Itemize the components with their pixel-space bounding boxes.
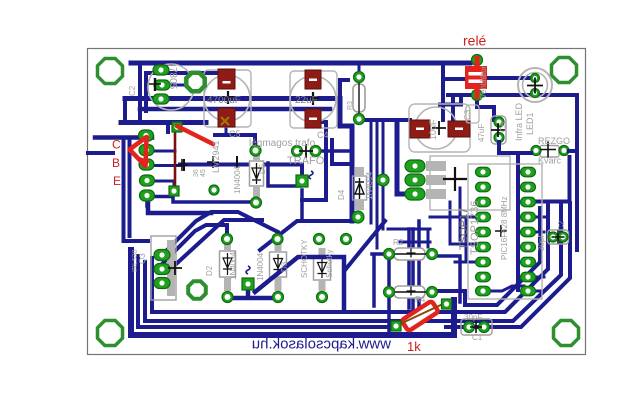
resistor R2 pad right xyxy=(427,249,438,260)
wire top bus xyxy=(131,61,470,66)
squiggle xyxy=(246,266,250,274)
PIC pin R9 xyxy=(521,286,536,296)
wire sq pad west xyxy=(302,198,326,202)
svg-text:1N4004: 1N4004 xyxy=(229,251,238,280)
resistor R5 body xyxy=(353,84,365,112)
mounting hole bottom-left xyxy=(98,321,123,346)
regulator IC2 7805 body xyxy=(148,64,194,110)
pad sq top xyxy=(172,122,182,132)
resistor 1k body xyxy=(401,301,438,332)
octagon pad bottom xyxy=(188,281,206,299)
wire PIC stub a xyxy=(430,216,477,219)
wire pic top v xyxy=(516,153,520,290)
wire PIC right stub d xyxy=(534,290,544,293)
svg-text:D4: D4 xyxy=(337,189,346,200)
wire left corner big xyxy=(121,120,206,125)
wire pad stub mid xyxy=(382,186,385,221)
diode D5 pad bottom xyxy=(273,292,284,303)
wire relay feed xyxy=(441,63,445,120)
wire pad4 stub xyxy=(153,181,174,186)
relay stubs xyxy=(475,56,480,99)
wire 7805 pin2 stub xyxy=(168,84,188,87)
wire trafo right xyxy=(268,151,348,186)
wire diag Q3 up xyxy=(175,220,262,265)
PIC pin L4 xyxy=(476,212,491,222)
wire D6 top stub xyxy=(215,135,255,146)
svg-text:30pF: 30pF xyxy=(464,313,482,322)
trafo pad right xyxy=(310,146,321,157)
wire R2 left xyxy=(372,254,389,306)
TSOP1736 body xyxy=(430,156,510,210)
PIC pin L8 xyxy=(476,272,491,282)
wire pic row to right xyxy=(534,157,570,202)
wire 7805 pin1 stub xyxy=(160,63,163,70)
svg-text:E: E xyxy=(113,174,121,188)
wire left vertical pair a xyxy=(138,63,142,121)
wire PIC bottom jog xyxy=(489,286,524,291)
TSOP pad2 xyxy=(405,174,425,186)
wire left vertical c xyxy=(123,99,127,122)
wire PIC right stub b xyxy=(534,231,544,234)
diode D2 pad bottom xyxy=(222,292,233,303)
diode D2 pad top xyxy=(222,234,233,245)
wire PIC right stub c xyxy=(534,276,544,279)
wire bundle P2 xyxy=(145,202,561,322)
capacitor C5 body xyxy=(204,70,251,127)
wire C4 down a xyxy=(313,122,326,197)
wire left vertical pair b xyxy=(144,73,148,111)
diode D4 body xyxy=(353,176,367,200)
wire sqpad down xyxy=(300,190,304,221)
wire diag N1 xyxy=(162,212,278,255)
svg-text:TRAFO: TRAFO xyxy=(287,155,325,167)
resistor R5 pad bottom xyxy=(354,114,365,125)
diode D6 symbol xyxy=(252,163,261,184)
diode D6 bottom pad xyxy=(251,197,262,208)
relay pad bottom xyxy=(472,90,483,101)
PIC pin L2 xyxy=(476,182,491,192)
wire diag N2 xyxy=(162,225,227,264)
svg-text:PIC16F628 8MHz: PIC16F628 8MHz xyxy=(500,196,509,260)
octagon pad near 7805 xyxy=(186,73,204,91)
squiggle2 xyxy=(309,171,313,179)
wire stub v168 xyxy=(166,123,170,132)
PIC pin R2 xyxy=(521,182,536,192)
diode D3 pad top xyxy=(314,234,325,245)
mounting hole top-right xyxy=(552,58,577,83)
wire bundle P1 xyxy=(152,203,548,312)
resistor R4 body xyxy=(394,286,425,298)
wire bottom thick xyxy=(131,250,454,335)
svg-text:C5: C5 xyxy=(229,129,241,139)
capacitor C7 pad right xyxy=(448,121,470,137)
capacitor C4 body xyxy=(290,71,337,128)
transistor T1 red symbol xyxy=(130,137,147,166)
wire C5 to D6 xyxy=(225,127,228,135)
diode D6 top pad xyxy=(250,145,261,156)
capacitor C2 pad right xyxy=(558,232,568,242)
wire PIC stub b xyxy=(450,202,477,244)
svg-text:SCHOTKY: SCHOTKY xyxy=(300,239,309,278)
wire R2 upper net xyxy=(388,229,430,247)
svg-text:relé: relé xyxy=(463,33,487,49)
mounting hole bottom-right xyxy=(554,321,579,346)
PIC pin L7 xyxy=(476,257,491,267)
svg-text:4700uF: 4700uF xyxy=(207,95,241,106)
pad ring extra xyxy=(209,185,219,195)
wire L schottky xyxy=(255,257,344,311)
pad square mid xyxy=(296,175,308,187)
LED1 body xyxy=(518,68,552,102)
wire relay pad to C6 xyxy=(477,95,494,120)
relay pad top xyxy=(472,55,483,66)
resistor R4 pad left xyxy=(384,287,395,298)
svg-text:D5: D5 xyxy=(258,163,267,174)
capacitor C7 pad left xyxy=(410,120,430,138)
diode D5 pad top xyxy=(272,234,283,245)
capacitor C2 body xyxy=(548,230,569,244)
wire center v2 xyxy=(376,120,379,248)
wire center v xyxy=(417,221,421,312)
capacitor C5 pad bottom xyxy=(218,108,235,127)
wire pad B stub xyxy=(153,150,175,153)
svg-text:www.kapcsolasok.hu: www.kapcsolasok.hu xyxy=(252,336,392,353)
svg-text:C1: C1 xyxy=(472,333,483,342)
crystal pad left xyxy=(531,146,541,156)
svg-text:LED1: LED1 xyxy=(525,112,535,135)
PIC pin R3 xyxy=(521,197,536,207)
svg-text:C2: C2 xyxy=(128,85,137,96)
resistor R2 body xyxy=(394,248,425,260)
diode D3 body xyxy=(314,257,331,280)
LM2941 symbol xyxy=(176,159,188,171)
diode D4 pad bottom xyxy=(352,211,364,223)
wire left long v1 xyxy=(124,138,149,241)
svg-text:LM2941: LM2941 xyxy=(211,140,221,173)
wire E down xyxy=(148,197,211,213)
svg-text:Infra LED: Infra LED xyxy=(514,102,524,141)
wire R2 lower h xyxy=(400,241,430,244)
wire relay left feed xyxy=(443,77,470,81)
svg-text:REZGO: REZGO xyxy=(538,136,570,146)
wire cap right feed xyxy=(451,97,455,120)
LED1 pad anode xyxy=(531,74,540,83)
LED1 pad cathode xyxy=(531,89,540,98)
capacitor C3 body xyxy=(466,105,479,123)
wire bundle P3b xyxy=(446,203,570,327)
wire LM2941 row xyxy=(180,165,302,183)
wire R2 right xyxy=(434,256,460,302)
PIC pin R5 xyxy=(521,227,536,237)
transistor T1 pad 3 xyxy=(139,159,154,170)
wire main horizontal bus 2 xyxy=(125,99,352,222)
PIC pin R8 xyxy=(521,272,536,282)
diode D6 body xyxy=(250,161,264,186)
wire relay right net xyxy=(448,95,577,250)
pad square d xyxy=(242,278,254,290)
wire relay to LED xyxy=(487,76,531,80)
Q3 pad3 xyxy=(154,278,170,289)
7805 pin1 xyxy=(153,65,169,75)
wire pads row bottom xyxy=(229,288,281,298)
red diagonal wire xyxy=(177,126,213,144)
wire C row xyxy=(95,135,152,140)
svg-text:47uF: 47uF xyxy=(477,124,486,142)
wire C4 down b xyxy=(332,140,352,164)
svg-text:7805: 7805 xyxy=(167,67,178,90)
capacitor C2 pad left xyxy=(548,232,558,242)
wire diag center c xyxy=(345,221,385,270)
capacitor C6 pad bottom xyxy=(494,133,504,143)
7805 pin2 xyxy=(154,80,170,90)
7805 pin3 xyxy=(153,94,169,104)
resistor R5 pad top xyxy=(354,72,365,83)
svg-text:Q3: Q3 xyxy=(138,253,147,264)
transistor T1 pad C xyxy=(139,130,154,141)
svg-text:C3: C3 xyxy=(463,109,472,120)
wire R4 down xyxy=(387,297,391,335)
resistor 1k pad right xyxy=(442,299,452,309)
svg-text:B: B xyxy=(112,156,120,170)
jumper maroon vertical xyxy=(174,131,177,186)
wire PIC mid v xyxy=(459,188,462,240)
TSOP pad1 xyxy=(405,160,425,172)
wire center v1 xyxy=(370,120,373,223)
capacitor C6 body xyxy=(491,116,506,144)
svg-text:30pF: 30pF xyxy=(537,233,546,251)
pad ring mid xyxy=(377,174,389,186)
svg-text:36: 36 xyxy=(193,169,200,177)
capacitor C6 pad top xyxy=(494,117,504,127)
svg-text:Kvarc: Kvarc xyxy=(538,156,562,166)
transistor Q3 body xyxy=(151,236,176,300)
svg-text:10uF: 10uF xyxy=(428,119,438,140)
wire top bus b xyxy=(146,71,218,75)
wire left long v2 xyxy=(128,138,132,236)
wire 10uF to bus xyxy=(440,97,461,105)
wire C4 loop up xyxy=(340,80,348,98)
resistor 1k lead xyxy=(398,303,445,325)
svg-text:45: 45 xyxy=(200,169,207,177)
capacitor C1 pad left xyxy=(464,322,475,333)
wire vert 409 xyxy=(407,229,411,308)
transistor T1 pad E xyxy=(140,190,155,201)
wire crystal left stub xyxy=(499,142,531,153)
wire center v3 xyxy=(382,120,385,229)
svg-text:D2: D2 xyxy=(205,265,214,276)
wire pad5 stub xyxy=(147,197,251,207)
capacitor C4 pad top xyxy=(305,70,321,89)
PIC pin L5 xyxy=(476,227,491,237)
resistor R4 pad right xyxy=(427,287,438,298)
trafo pad left xyxy=(292,146,303,157)
resistor R2 pad left xyxy=(384,249,395,260)
wire R5 top stub xyxy=(358,63,361,77)
svg-text:R2: R2 xyxy=(393,238,404,247)
svg-text:22uF: 22uF xyxy=(295,95,318,106)
wire bundle P3a xyxy=(138,256,391,327)
crystal body xyxy=(540,146,559,158)
board outline xyxy=(88,49,586,355)
relay body xyxy=(465,66,487,89)
capacitor C5 polarity mark xyxy=(221,117,229,125)
PIC pin R6 xyxy=(521,242,536,252)
transistor T1 pad 4 xyxy=(140,175,155,186)
transistor T1 pad 2 xyxy=(139,145,154,156)
diode D2 body xyxy=(220,251,236,277)
svg-text:Ventilátor: Ventilátor xyxy=(479,65,488,99)
svg-text:C2: C2 xyxy=(557,220,566,231)
pad ring standalone xyxy=(341,234,352,245)
svg-text:1N4004: 1N4004 xyxy=(256,252,265,281)
svg-text:TSOP17: TSOP17 xyxy=(458,208,470,250)
capacitor C4 pad bottom xyxy=(305,109,321,128)
svg-text:1N4004: 1N4004 xyxy=(233,165,242,194)
wire PIC mid v2 xyxy=(466,217,477,262)
PIC pin R4 xyxy=(521,212,536,222)
crystal pad right xyxy=(559,146,569,156)
wire crystal right stub xyxy=(569,149,577,153)
wire pad stub3 xyxy=(153,164,180,167)
wire center v4 wide xyxy=(397,122,406,194)
IC PIC16F628 body xyxy=(468,164,542,299)
wire PIC stub c xyxy=(455,261,477,264)
wire vert 413 xyxy=(411,229,415,312)
svg-text:D3: D3 xyxy=(280,261,289,272)
capacitor C5 pad top xyxy=(218,69,235,89)
svg-text:R3: R3 xyxy=(347,101,354,110)
svg-text:TSOP1736: TSOP1736 xyxy=(469,201,481,255)
wire R2-R4 link xyxy=(387,259,391,287)
PIC pin L3 xyxy=(476,197,491,207)
resistor 1k pad left xyxy=(391,321,401,331)
capacitor C1 body xyxy=(461,319,492,335)
Q3 pad2 xyxy=(154,264,170,275)
wire R3 row xyxy=(363,118,410,122)
pad sq bottom xyxy=(169,186,179,196)
wire short bus 3 xyxy=(140,107,330,112)
svg-text:C6: C6 xyxy=(499,121,508,132)
svg-text:légmagos trafo: légmagos trafo xyxy=(249,138,316,149)
wire left edge stub xyxy=(88,151,113,155)
PIC pin L1 xyxy=(476,167,491,177)
capacitor C1 pad right xyxy=(479,322,490,333)
svg-text:C4: C4 xyxy=(317,130,329,140)
svg-text:Schotky: Schotky xyxy=(325,250,334,278)
svg-text:1N4004: 1N4004 xyxy=(365,171,374,200)
PIC pin L9 xyxy=(476,286,491,296)
Q3 pad1 xyxy=(154,250,170,261)
svg-text:C: C xyxy=(112,138,121,152)
capacitor C7 10uF body xyxy=(409,104,470,152)
PIC pin R7 xyxy=(521,257,536,267)
wire bundle P0 xyxy=(434,208,540,305)
svg-text:1k: 1k xyxy=(407,339,421,354)
svg-text:R4: R4 xyxy=(415,295,426,304)
diode D3 pad bottom xyxy=(317,292,328,303)
PIC pin R1 xyxy=(521,167,536,177)
TSOP pad3 xyxy=(405,188,425,200)
diode D5 body xyxy=(270,252,287,277)
mounting hole top-left xyxy=(98,59,123,84)
wire diag center b xyxy=(260,221,356,250)
wire PIC right stub a xyxy=(534,216,548,219)
PIC pin L6 xyxy=(476,242,491,252)
